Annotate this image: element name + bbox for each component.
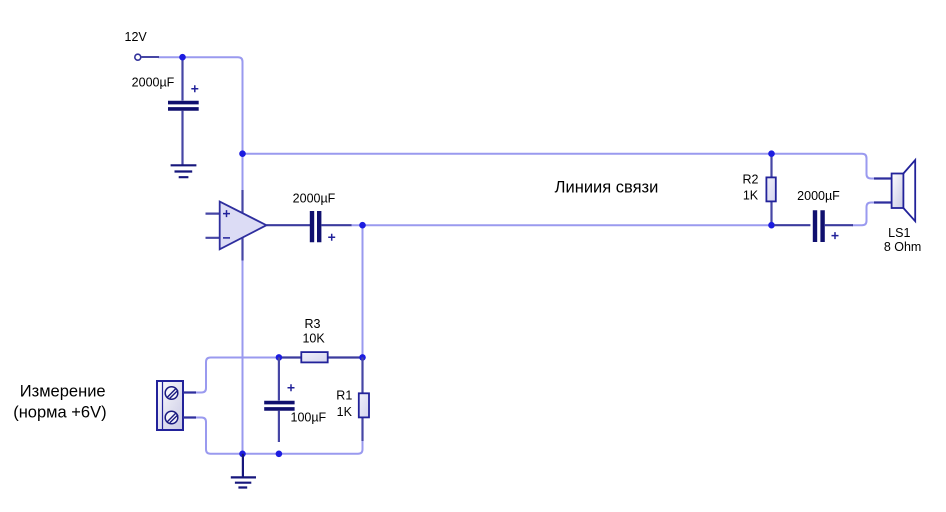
op-amp U1 power pins (241, 190, 243, 261)
wire: right cap to speaker bottom terminal (852, 203, 874, 226)
wire: terminal block bottom contact to ground bus (196, 418, 243, 454)
svg-text:1K: 1K (743, 188, 759, 202)
label R2 (743, 173, 759, 187)
op-amp U1 output wire (267, 224, 311, 226)
label C2 2000µF (293, 191, 336, 205)
svg-text:8 Ohm: 8 Ohm (884, 240, 922, 254)
terminal block screw top (165, 387, 178, 400)
wire stub from 12V terminal (141, 56, 159, 58)
speaker LS1 body (892, 174, 904, 209)
op-amp U1 input stubs (206, 214, 221, 238)
ground symbol at C1 (171, 165, 197, 177)
speaker LS1 horn (903, 160, 915, 221)
node measure junction right (359, 354, 366, 361)
node R2 top junction (768, 150, 775, 157)
node B rail to line junction (239, 150, 246, 157)
label R1 (336, 389, 352, 403)
capacitor C3 right pin (824, 224, 853, 226)
resistor R1 pins (361, 357, 363, 441)
svg-text:R3: R3 (305, 317, 321, 331)
wire: top line of communication line y=152 (243, 154, 875, 179)
svg-text:12V: 12V (125, 30, 148, 44)
label R2 value 1K (743, 188, 759, 202)
power terminal 12V circle (135, 54, 141, 60)
capacitor C4 100µF pins (278, 357, 280, 442)
label C1 2000µF (132, 75, 175, 89)
wire: terminal block top contact to measure node (196, 358, 279, 393)
capacitor C1 2000µF pins (181, 57, 183, 165)
svg-text:LS1: LS1 (888, 226, 910, 240)
capacitor C2 output side pin (321, 224, 351, 226)
op-amp U1 triangle (220, 202, 267, 250)
resistor R2 body (766, 177, 775, 201)
label C4 100µF (291, 411, 327, 425)
op-amp U1 plus input sign (223, 210, 230, 217)
svg-text:2000µF: 2000µF (797, 189, 840, 203)
terminal block contact stubs (183, 393, 196, 418)
capacitor C4 100µF plates (264, 403, 294, 409)
capacitor C3 plates (815, 210, 823, 242)
label C3 2000µF (797, 189, 840, 203)
capacitor C3 2000µF left pin (774, 224, 810, 226)
node output junction (359, 222, 366, 229)
node ground bus rail junction (239, 451, 246, 458)
label line name (555, 179, 659, 197)
op-amp U1 minus input sign (223, 237, 230, 239)
svg-text:2000µF: 2000µF (293, 191, 336, 205)
resistor R2 pins (770, 154, 772, 226)
capacitor C4 polarity plus (288, 384, 295, 391)
capacitor C1 2000µF plates (168, 103, 199, 109)
node A top rail junction (179, 54, 186, 61)
wire: 12V feed from terminal to top junction and down to node rail (158, 57, 243, 153)
label R3 (305, 317, 321, 331)
svg-text:1K: 1K (337, 405, 353, 419)
node R2 bottom junction (768, 222, 775, 229)
speaker LS1 terminal stubs (874, 179, 892, 203)
capacitor C1 polarity plus (191, 85, 198, 92)
node ground bus cap junction (276, 451, 283, 458)
svg-text:R2: R2 (743, 173, 759, 187)
svg-text:Измерение: Измерение (20, 383, 106, 401)
capacitor C2 polarity plus (328, 234, 335, 241)
svg-text:10K: 10K (302, 332, 325, 346)
capacitor C2 2000µF plates (312, 211, 319, 242)
wire: main vertical rail x=242.5 from top node down to ground bus (242, 154, 244, 454)
label LS1 value 8 Ohm (884, 240, 922, 254)
label R1 value 1K (337, 405, 353, 419)
node measure junction left (276, 354, 283, 361)
ground symbol at bus (231, 454, 256, 488)
svg-text:100µF: 100µF (291, 411, 327, 425)
wire: output node down to R3/R1 node (362, 225, 364, 357)
label LS1 (888, 226, 910, 240)
svg-text:2000µF: 2000µF (132, 75, 175, 89)
wire: ground bus from rail to R1 bottom (243, 420, 363, 454)
resistor R1 body (359, 393, 369, 417)
svg-text:Линиия связи: Линиия связи (555, 179, 659, 197)
label measurement line 2 (13, 404, 106, 422)
resistor R3 pins (279, 356, 363, 358)
svg-text:(норма +6V): (норма +6V) (13, 404, 106, 422)
capacitor C3 polarity plus (832, 232, 839, 239)
label R3 value 10K (302, 332, 325, 346)
label measurement line 1 (20, 383, 106, 401)
terminal block screw bottom (165, 411, 178, 424)
terminal block J1 body (157, 381, 183, 430)
wire: bottom line of communication line y=224.3 (351, 224, 772, 226)
resistor R3 body (301, 352, 327, 362)
label 12V (125, 30, 148, 44)
svg-text:R1: R1 (336, 389, 352, 403)
